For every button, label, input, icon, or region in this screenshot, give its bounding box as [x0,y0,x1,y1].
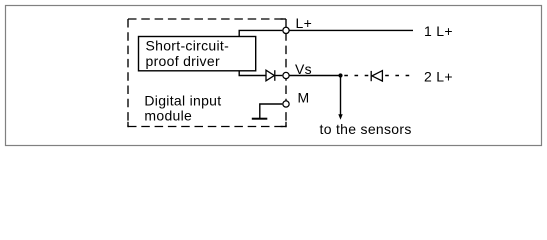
svg-text:L+: L+ [296,15,313,31]
svg-text:Vs: Vs [295,61,312,77]
svg-text:to the sensors: to the sensors [320,121,412,137]
svg-text:1 L+: 1 L+ [424,23,453,39]
svg-text:module: module [144,108,192,124]
svg-text:Digital input: Digital input [144,93,221,109]
svg-text:Short-circuit-: Short-circuit- [146,38,230,54]
svg-text:M: M [298,90,310,106]
svg-text:2 L+: 2 L+ [424,69,453,85]
svg-text:proof driver: proof driver [146,53,220,69]
